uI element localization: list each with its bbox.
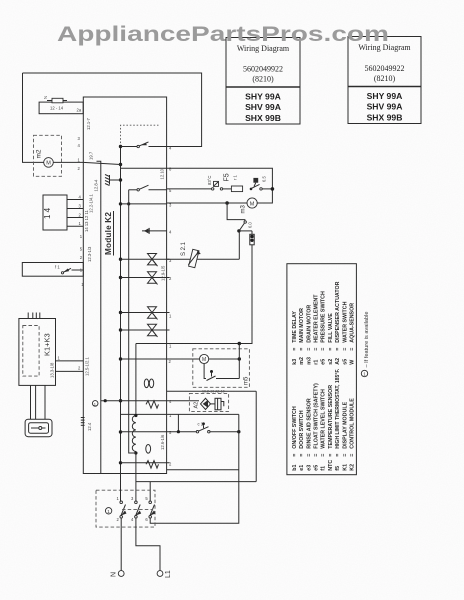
aqua-sensor m5 emitter	[200, 354, 209, 363]
wire: main motor m2 feed into module	[83, 162, 120, 164]
door switch e1 (module row, pin 4)	[121, 146, 138, 148]
coil (choke) in module	[132, 344, 136, 474]
wire: rail to on/off switch	[136, 481, 256, 483]
interference suppressor on connector 12-14	[52, 98, 63, 103]
wire: dispenser actuator A2 row (pin 4)	[101, 400, 167, 402]
wire: pole3 bottom loop	[150, 482, 239, 524]
connector block 14	[43, 195, 67, 230]
wire: drain motor m3 row (pin 3)	[121, 203, 167, 205]
wire: s5 net down to b1 switch	[255, 391, 257, 481]
terminal N	[118, 571, 124, 577]
main motor m2	[44, 158, 54, 168]
wire: neutral bus to pole 1	[120, 474, 122, 502]
label 19.7	[89, 151, 94, 160]
on/off switch b1 enclosure	[96, 490, 155, 527]
switch b1 pole 3	[149, 501, 152, 504]
connector box 12-14	[39, 102, 83, 114]
wire: heater relay row (pin 2)	[121, 462, 170, 464]
switch b1 gang link	[122, 509, 153, 511]
relay coils (twin ovals)	[144, 379, 148, 388]
Module K2 box	[83, 97, 166, 474]
label 12.6-1/6	[160, 434, 165, 450]
title box 1	[226, 38, 300, 125]
aqua-sensor switch	[204, 364, 206, 379]
footnote: circled 1 if feature is available	[361, 370, 367, 376]
switch b1 pole 2	[135, 501, 138, 504]
switch e0 (NTC branch)	[227, 203, 245, 221]
triac T3 (pin 1)	[121, 307, 170, 320]
label 12.2-1/4.1	[89, 193, 94, 213]
main motor m2 enclosure	[34, 135, 62, 176]
wire: c1 net down to b1 switch	[238, 414, 240, 481]
aqua-sensor m5 enclosure	[193, 349, 250, 388]
title box 2	[348, 37, 421, 124]
switch c1	[196, 431, 198, 433]
wire: m2 to module pin 1	[53, 161, 83, 163]
module neutral bus	[120, 147, 122, 474]
indicator lamp (circled 1)	[105, 508, 111, 514]
wire: aqua-sensor internal	[238, 344, 240, 379]
second internal rail	[129, 190, 136, 453]
wire: heater feed out (pin 8)	[121, 167, 167, 169]
wire: L1 feed loop around top	[23, 73, 202, 147]
terminal L1	[157, 571, 163, 577]
module internal rail	[97, 161, 101, 473]
wire bundle marks (12.4)	[81, 418, 85, 426]
Module K2 label	[104, 212, 113, 255]
float switch e5 (6.5)	[250, 188, 253, 191]
underline of label	[113, 211, 115, 256]
wire: switch c1 feed row (pin 1)	[121, 413, 167, 415]
fill valve s2 (S 2.1)	[238, 231, 240, 259]
circled 1 footnote in module	[92, 401, 98, 407]
water level switch f1	[22, 263, 83, 277]
relay contact k3 (module row, pin 5)	[129, 189, 137, 191]
resistor (zigzag) row 404	[146, 401, 159, 409]
triac T1 (fill valve row, pin 3)	[121, 254, 170, 267]
diode component (module row, pin 4)	[142, 230, 167, 232]
label 12.8-4	[94, 179, 99, 192]
water switch s5	[25, 419, 52, 437]
dispenser actuator A2 element	[201, 398, 211, 409]
triac T2 (pin 2)	[121, 272, 170, 285]
legend table	[287, 264, 357, 475]
wire: row 231 to NTC	[239, 230, 252, 232]
wire: switch c1 row (pin 5)	[121, 431, 197, 433]
wire: aqua-sensor return row (pin 1)	[136, 343, 239, 345]
wires: connector 14 pins 4,3,2,1	[67, 199, 83, 201]
dispenser actuator A2 solenoid	[211, 403, 216, 405]
triac T4	[121, 324, 170, 337]
wire: left feed to m2	[23, 73, 44, 162]
wire: aqua-sensor m5 feed row (pin 2)	[121, 358, 200, 360]
label 12.10	[160, 168, 165, 179]
bus junction nodes	[119, 145, 122, 148]
relay coil (oval) row 449	[146, 445, 151, 454]
chassis ground symbol	[105, 175, 121, 186]
wire: module bottom stub	[167, 469, 239, 471]
wire: pole 2 to terminal L1	[136, 518, 160, 571]
resistor (zigzag) row 464	[146, 461, 159, 469]
dispenser actuator A2 enclosure	[189, 393, 228, 411]
temperature sensor NTC	[251, 231, 253, 234]
wire: heater loop (pin 8 to m3 leg)	[167, 168, 273, 203]
switch b1 pole 1	[120, 501, 123, 504]
wires: K1+K3 to module (pins 1,2)	[56, 360, 84, 362]
heater element r1	[231, 186, 242, 192]
label 12.9-1/5	[161, 265, 166, 281]
wire: heater row y189	[167, 188, 213, 190]
wires: K1+K3 to s5	[30, 385, 32, 419]
thermal cutout F5 (83 C)	[212, 188, 214, 190]
wire: water switch s5 feed row	[167, 390, 257, 392]
drain motor m3	[225, 201, 229, 205]
K1+K3 top pins	[27, 313, 29, 319]
wire: pole 1 to terminal N	[120, 518, 122, 571]
display module K1+K3	[19, 319, 56, 386]
